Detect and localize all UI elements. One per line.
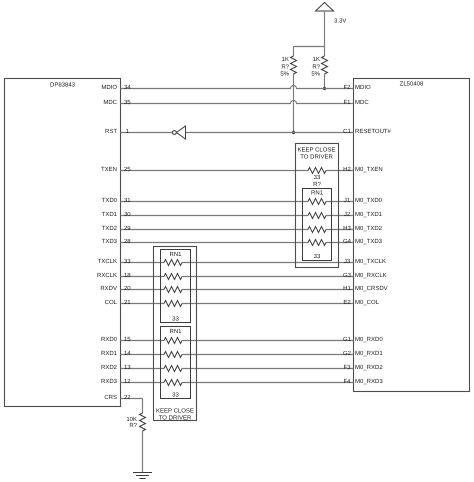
svg-text:MDIO: MDIO [355, 84, 371, 91]
svg-text:M0_TXD0: M0_TXD0 [355, 197, 383, 204]
svg-text:R?: R? [312, 63, 320, 70]
svg-text:RXD2: RXD2 [101, 364, 118, 371]
svg-text:DP83843: DP83843 [50, 82, 76, 89]
svg-text:20: 20 [124, 285, 131, 292]
svg-text:H3: H3 [343, 225, 351, 232]
svg-text:TO DRIVER: TO DRIVER [159, 415, 192, 422]
svg-text:M0_CRSDV: M0_CRSDV [355, 285, 388, 292]
svg-text:J2: J2 [344, 211, 351, 218]
svg-text:M0_RXCLK: M0_RXCLK [355, 272, 387, 279]
svg-text:1K: 1K [313, 56, 320, 63]
svg-text:M0_RXD1: M0_RXD1 [355, 350, 383, 357]
svg-text:RN1: RN1 [311, 190, 324, 197]
svg-text:R?: R? [281, 63, 289, 70]
svg-text:G4: G4 [343, 238, 352, 245]
svg-text:M0_TXCLK: M0_TXCLK [355, 258, 386, 265]
svg-text:10K: 10K [126, 416, 137, 423]
svg-text:RXCLK: RXCLK [97, 272, 117, 279]
svg-text:M0_TXD2: M0_TXD2 [355, 225, 383, 232]
svg-text:33: 33 [124, 258, 131, 265]
svg-text:30: 30 [124, 211, 131, 218]
svg-text:M0_TXD3: M0_TXD3 [355, 238, 383, 245]
svg-text:25: 25 [124, 166, 131, 173]
svg-text:TXCLK: TXCLK [98, 258, 117, 265]
svg-text:RXD3: RXD3 [101, 378, 118, 385]
svg-text:R?: R? [129, 422, 137, 429]
svg-text:RXD0: RXD0 [101, 336, 118, 343]
svg-text:ZL50408: ZL50408 [400, 81, 424, 88]
svg-text:22: 22 [124, 394, 131, 401]
svg-text:MDC: MDC [355, 99, 369, 106]
svg-text:29: 29 [124, 225, 131, 232]
svg-text:15: 15 [124, 336, 131, 343]
svg-text:RXDV: RXDV [100, 285, 117, 292]
svg-text:33: 33 [172, 392, 179, 399]
svg-text:12: 12 [124, 378, 131, 385]
svg-text:1: 1 [126, 128, 130, 135]
svg-text:KEEP CLOSE: KEEP CLOSE [298, 147, 336, 154]
svg-text:TXD3: TXD3 [102, 238, 118, 245]
svg-text:1K: 1K [282, 56, 289, 63]
svg-text:F4: F4 [343, 378, 351, 385]
svg-text:MDIO: MDIO [101, 84, 117, 91]
svg-text:33: 33 [172, 316, 179, 323]
svg-text:RN1: RN1 [169, 251, 182, 258]
svg-text:F1: F1 [343, 99, 351, 106]
svg-text:G2: G2 [343, 350, 352, 357]
svg-text:TXD1: TXD1 [102, 211, 118, 218]
svg-text:H2: H2 [343, 166, 351, 173]
svg-text:MDC: MDC [103, 99, 117, 106]
svg-text:G1: G1 [343, 336, 352, 343]
svg-text:J3: J3 [344, 258, 351, 265]
svg-text:C1: C1 [343, 128, 351, 135]
svg-text:H1: H1 [343, 285, 351, 292]
svg-text:34: 34 [124, 84, 131, 91]
svg-text:RXD1: RXD1 [101, 350, 118, 357]
svg-text:RST: RST [105, 128, 117, 135]
svg-text:R?: R? [313, 181, 321, 188]
svg-text:28: 28 [124, 238, 131, 245]
svg-text:M0_RXD3: M0_RXD3 [355, 378, 383, 385]
svg-text:TXEN: TXEN [101, 166, 117, 173]
svg-text:M0_COL: M0_COL [355, 299, 380, 306]
svg-text:CRS: CRS [104, 394, 117, 401]
svg-text:3.3V: 3.3V [334, 18, 346, 25]
svg-text:J1: J1 [344, 197, 351, 204]
svg-text:M0_TXEN: M0_TXEN [355, 166, 383, 173]
svg-text:33: 33 [314, 174, 321, 181]
svg-text:F3: F3 [343, 364, 351, 371]
svg-text:COL: COL [105, 299, 118, 306]
svg-text:33: 33 [314, 253, 321, 260]
svg-text:TXD2: TXD2 [102, 225, 118, 232]
svg-text:RN1: RN1 [169, 328, 182, 335]
svg-text:E2: E2 [343, 299, 351, 306]
svg-text:M0_TXD1: M0_TXD1 [355, 211, 383, 218]
svg-text:G3: G3 [343, 272, 352, 279]
svg-text:M0_RXD2: M0_RXD2 [355, 364, 383, 371]
svg-text:RESETOUT#: RESETOUT# [355, 128, 392, 135]
svg-text:14: 14 [124, 350, 131, 357]
svg-text:KEEP CLOSE: KEEP CLOSE [156, 408, 194, 415]
svg-text:TXD0: TXD0 [102, 197, 118, 204]
svg-text:18: 18 [124, 272, 131, 279]
svg-text:35: 35 [124, 99, 131, 106]
svg-text:31: 31 [124, 197, 131, 204]
svg-text:M0_RXD0: M0_RXD0 [355, 336, 383, 343]
svg-text:5%: 5% [311, 71, 320, 78]
svg-text:21: 21 [124, 299, 131, 306]
svg-text:13: 13 [124, 364, 131, 371]
svg-text:TO DRIVER: TO DRIVER [300, 154, 333, 161]
svg-text:5%: 5% [280, 71, 289, 78]
svg-text:F2: F2 [343, 84, 351, 91]
